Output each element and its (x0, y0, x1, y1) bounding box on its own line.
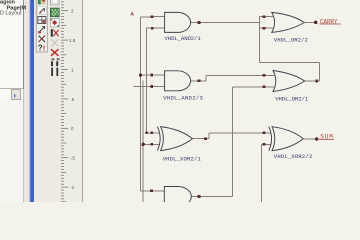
junction dot net C tap (142, 143, 145, 146)
wire net A vertical bus (140, 17, 142, 191)
junction square U1 output (198, 21, 201, 24)
pin stubs U4 (264, 75, 317, 87)
wire net B to U5 pin1 (147, 132, 152, 134)
wire U2 output to U4 pin1 (206, 74, 264, 76)
and-gate U7 bottom (clipped) (164, 187, 191, 207)
ruler background (61, 0, 83, 202)
junction dot net A tap (139, 73, 142, 76)
wire stub to U3 pin1 (259, 16, 264, 18)
wire net C horizontal to U2 pin2 (134, 86, 152, 88)
junction square U7 output (198, 195, 201, 198)
wire U5 output to U6 pin1 (209, 132, 264, 134)
toolbar icons right column (50, 0, 59, 76)
svg-text:›: › (13, 90, 16, 100)
pin stubs U2 (152, 75, 199, 87)
svg-text:!: ! (43, 43, 46, 52)
wire U4 output to loop (317, 80, 320, 82)
wire U6 output stub to SUM (303, 138, 317, 140)
wire U3 output stub to CARRY (304, 21, 316, 23)
svg-text:D Layout: D Layout (0, 10, 22, 16)
xor-gate U6 VHDL_XOR2/2 body (272, 127, 303, 151)
pin stub U7 (152, 191, 199, 197)
ruler (61, 2, 76, 202)
tree panel arrow button (12, 90, 21, 101)
junction square U4 output (315, 80, 318, 83)
svg-text:VHDL_XOR2/2: VHDL_XOR2/2 (274, 153, 313, 160)
junction square U4 pin1 (263, 74, 266, 77)
wire U2 output horizontal (199, 80, 206, 82)
junction dot SUM node (315, 137, 319, 141)
junction square U3 pin1 (263, 15, 266, 18)
junction square U7 pin1 (150, 189, 153, 192)
junction square U3 pin2 (263, 27, 266, 30)
svg-text:VHDL_XOR2/1: VHDL_XOR2/1 (163, 155, 202, 162)
junction square U5 output (204, 137, 207, 140)
wire net B corner horizontal to U1 pin2 (147, 27, 153, 29)
panel texts (0, 0, 26, 16)
wire U5 output horizontal (205, 138, 209, 140)
pin stubs U5 (152, 133, 206, 145)
and-gate U2 VHDL_AND2/3 (165, 71, 191, 91)
wire U7 output vertical riser (231, 87, 233, 197)
wire U5 output riser (208, 133, 210, 139)
pin stubs U3 (264, 17, 273, 29)
net CARRY underline wire (319, 23, 340, 25)
junction square U5 pin1 (150, 131, 153, 134)
op pin stubs U1 (152, 17, 199, 29)
svg-text:.5: .5 (71, 97, 75, 102)
wire to U4 pin2 (232, 86, 264, 88)
junction square U1 pin1 (151, 15, 154, 18)
junction square U6 pin1 (263, 131, 266, 134)
xor-gate U5 VHDL_XOR2/1 body (161, 127, 193, 151)
toolbar icons left column (36, 0, 47, 52)
svg-text:VHDL_AND2/3: VHDL_AND2/3 (163, 95, 203, 102)
panel gap (24, 0, 29, 202)
junction square U1 pin2 (151, 27, 154, 30)
left tree panel (0, 0, 23, 202)
or-gate U4 VHDL_OR2/1 (273, 71, 305, 92)
wire net A horizontal to U1 pin1 (141, 16, 152, 18)
xor-gate U5 VHDL_XOR2/1 rear arc (157, 127, 160, 151)
pin stubs U6 (264, 133, 271, 145)
junction dot CARRY node (314, 21, 318, 25)
wire U2 output riser (205, 75, 207, 81)
junction square U2 pin2 (150, 85, 153, 88)
junction square U4 pin2 (263, 85, 266, 88)
svg-text:VHDL_OR2/1: VHDL_OR2/1 (275, 95, 309, 102)
junction square U2 pin1 (150, 74, 153, 77)
svg-text:VHDL_AND2/1: VHDL_AND2/1 (165, 35, 202, 42)
or-gate U3 VHDL_OR2/2 (272, 12, 304, 32)
wire U6 pin2 vertical down (260, 144, 262, 202)
wire U6 pin2 stub (261, 143, 264, 145)
wire OR input vertical (258, 17, 260, 63)
wire loop horizontal from OR vertical (259, 61, 319, 63)
wire U1 output to OR net vertical (199, 21, 259, 23)
wire net C vertical bus (142, 81, 144, 203)
net SUM underline wire (319, 138, 334, 140)
junction square U6 pin2 (263, 143, 266, 146)
wire loop vertical down to U4 output (319, 62, 321, 81)
svg-text:VHDL_OR2/2: VHDL_OR2/2 (274, 36, 308, 43)
and-gate U1 VHDL_AND2/1 (165, 12, 191, 32)
toolbar background (34, 0, 61, 202)
wire U7 output horizontal (199, 196, 232, 198)
junction square U5 pin2 (150, 143, 153, 146)
wire net B vertical bus (146, 28, 148, 133)
wire net C tap to U5 pin2 (143, 143, 152, 145)
svg-text:1.5: 1.5 (69, 38, 76, 43)
svg-text:-1: -1 (70, 185, 74, 190)
blue splitter stripe (30, 0, 35, 202)
wire stub to U3 pin2 (259, 27, 264, 29)
junction dot net B corner (145, 131, 148, 134)
xor-gate U6 VHDL_XOR2/2 rear arc (269, 127, 272, 151)
wire net A to U7 pin1 (141, 190, 152, 192)
junction square U2 output (198, 79, 201, 82)
svg-text:-.5: -.5 (70, 156, 76, 161)
wire net A tap to U2 pin1 (141, 74, 152, 76)
